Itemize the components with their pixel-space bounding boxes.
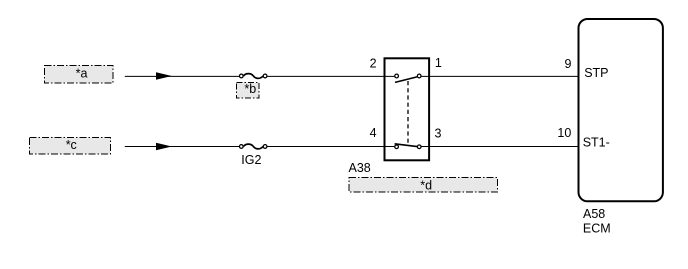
fuse IG2 symbol <box>239 144 267 149</box>
connector label box *c <box>30 138 111 155</box>
bottom switch contact left <box>395 145 399 149</box>
wire bottom segment from switch to ECM pin 10 <box>422 146 579 148</box>
svg-text:*d: *d <box>420 178 432 192</box>
svg-text:9: 9 <box>565 57 572 71</box>
svg-text:IG2: IG2 <box>241 153 261 167</box>
arrow on bottom wire <box>156 143 172 151</box>
top switch blade <box>395 77 417 83</box>
mechanical link dashed line <box>407 81 409 143</box>
svg-text:2: 2 <box>370 56 377 70</box>
svg-text:ST1-: ST1- <box>583 136 610 150</box>
svg-text:*a: *a <box>76 67 88 81</box>
svg-text:STP: STP <box>584 66 608 80</box>
wire top segment from fuse to switch A38 <box>267 75 394 77</box>
svg-text:*c: *c <box>66 138 77 152</box>
fuse label box *b <box>237 82 260 98</box>
svg-text:A38: A38 <box>349 161 371 175</box>
svg-text:4: 4 <box>370 126 377 140</box>
top switch contact right <box>417 74 421 78</box>
ECM body A58 <box>579 19 663 201</box>
svg-text:1: 1 <box>435 56 442 70</box>
connector label box *d <box>349 178 498 193</box>
svg-text:3: 3 <box>435 126 442 140</box>
switch body A38 <box>385 58 430 160</box>
wire bottom segment from *c to fuse IG2 <box>125 146 240 148</box>
wire bottom segment from fuse to switch A38 <box>267 146 394 148</box>
svg-text:10: 10 <box>557 126 571 140</box>
top switch contact left <box>395 74 399 78</box>
svg-text:A58: A58 <box>583 207 605 221</box>
bottom switch blade <box>395 144 418 147</box>
wire top segment from *a to fuse *b <box>125 75 240 77</box>
fuse *b symbol <box>239 74 267 79</box>
svg-text:*b: *b <box>244 82 256 96</box>
arrow on top wire <box>156 72 172 80</box>
connector label box *a <box>45 66 114 84</box>
wire top segment from switch to ECM pin 9 <box>422 75 579 77</box>
bottom switch contact right <box>417 145 421 149</box>
svg-text:ECM: ECM <box>583 221 611 235</box>
